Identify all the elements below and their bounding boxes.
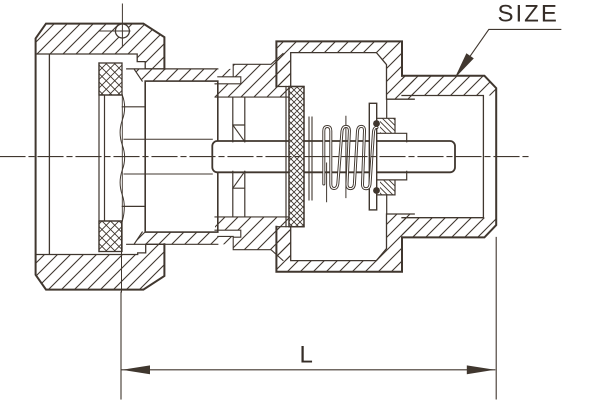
poppet seat housing lines xyxy=(377,99,407,214)
SIZE leader arrow xyxy=(455,53,474,78)
union nut hatch top xyxy=(36,24,165,69)
adapter thread band extension bottom xyxy=(218,236,233,244)
union nut hatch bottom xyxy=(36,244,165,289)
inner bore line right xyxy=(327,116,346,201)
seal gasket top (cross-hatched) xyxy=(99,63,122,95)
tailpiece flange lines xyxy=(99,63,145,252)
stem (valve stem shaft) xyxy=(212,141,455,172)
o-ring dot bottom xyxy=(373,187,380,194)
seat seal strip (cross-hatched) xyxy=(289,87,304,227)
outlet connector hatch top xyxy=(402,76,496,96)
adapter thread band bottom (hatched) xyxy=(134,232,218,244)
dimension extension line right xyxy=(495,237,497,399)
disc guide column xyxy=(233,97,245,216)
valve body outline xyxy=(276,41,402,271)
boss outline lines top xyxy=(215,54,289,98)
centerline main horizontal xyxy=(0,156,532,158)
spring coil xyxy=(324,126,377,188)
adapter bore lines xyxy=(124,139,212,174)
svg-text:L: L xyxy=(300,342,313,369)
tailpiece cylinder edge xyxy=(121,95,123,221)
valve body hatch top xyxy=(276,41,414,99)
outlet connector inner lines xyxy=(402,96,483,218)
poppet retainer hatch top xyxy=(380,118,395,133)
outlet connector hatch bottom xyxy=(402,218,496,238)
seat plate line xyxy=(285,87,287,227)
outlet connector outline xyxy=(402,76,496,238)
guide diagonal marks xyxy=(233,125,245,188)
svg-text:SIZE: SIZE xyxy=(498,1,559,28)
boss outline lines bottom xyxy=(215,217,289,261)
adapter body xyxy=(145,81,218,232)
poppet disc plate xyxy=(369,103,376,210)
body inlet boss top (hatched) xyxy=(215,54,291,98)
dimension extension line left xyxy=(120,292,122,399)
body cavity lines xyxy=(276,87,304,227)
adapter thread band extension top xyxy=(218,69,233,77)
adapter thread band top (hatched) xyxy=(134,69,218,81)
spring retainer lines xyxy=(309,117,312,200)
SIZE leader line xyxy=(458,29,561,73)
ball / hole circle on nut xyxy=(115,24,129,38)
dimension arrow right xyxy=(467,365,495,374)
tailpiece wavy face xyxy=(120,95,124,221)
body inlet boss bottom (hatched) xyxy=(215,217,291,261)
dimension arrow left xyxy=(122,365,150,374)
extension line through nut from circle xyxy=(121,222,123,292)
circle crosshair xyxy=(99,4,130,47)
o-ring dot top xyxy=(373,120,380,127)
union nut inner bore lines xyxy=(36,54,165,255)
poppet retainer hatch bottom xyxy=(380,180,395,195)
union nut outline xyxy=(36,24,165,290)
adapter band lines xyxy=(127,69,218,244)
spring coil wire core xyxy=(324,126,377,188)
seal gasket bottom (cross-hatched) xyxy=(99,221,122,252)
dimension line L xyxy=(122,369,495,371)
valve body hatch bottom xyxy=(276,214,414,272)
valve body inner lines xyxy=(291,53,415,261)
